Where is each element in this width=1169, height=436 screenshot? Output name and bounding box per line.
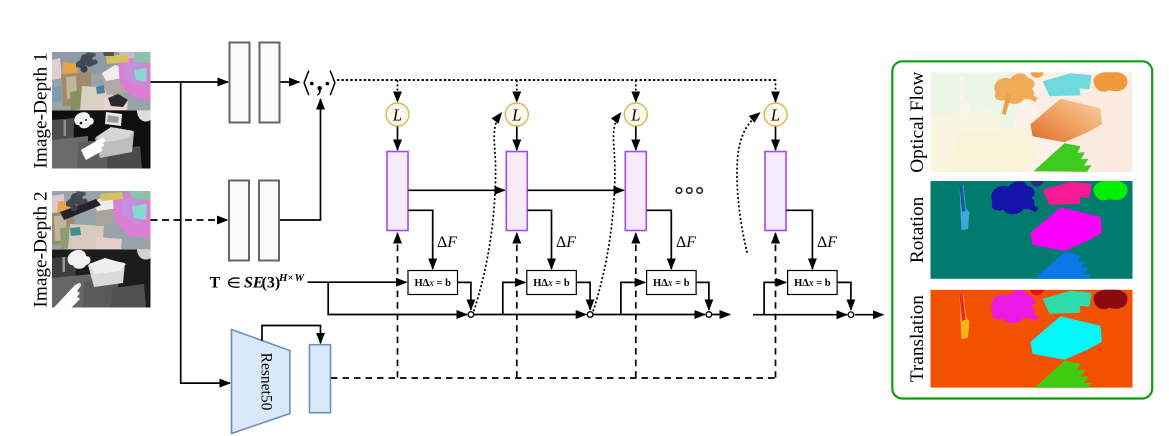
dotted stub into L3 [635,81,637,102]
wire encoder2 up to inner product [280,99,321,220]
wire image1 to encoder1 [151,81,229,83]
dark bat [108,94,128,107]
svg-text:L: L [511,106,521,125]
svg-text:(3): (3) [262,275,281,292]
GRU block 3 [625,152,646,231]
dashed hidden riser 1 [397,233,399,378]
svg-text:Image-Depth 2: Image-Depth 2 [31,191,52,307]
svg-text:L: L [630,106,640,125]
wire Hbox2 output to node 2 [576,282,590,309]
svg-text:Optical Flow: Optical Flow [907,72,928,173]
svg-text:ΔF: ΔF [676,234,696,251]
wire Hbox1 output to node 1 [458,282,471,309]
GRU block 1 [387,152,408,231]
svg-text:ΔF: ΔF [556,234,576,251]
light box [95,128,134,158]
H box 4 [788,271,838,295]
dotted pose feedback curve 2 [593,113,621,311]
wire Delta-F 2 [528,210,552,269]
H box 1 [408,271,458,295]
dotted stub into L2 [516,81,518,102]
H box 3 [647,271,697,295]
svg-text:Resnet50: Resnet50 [258,353,275,411]
wire Delta-F 4 [787,210,813,269]
dotted stub into L4 (rail end) [775,80,777,102]
image-depth 2 RGB frame [52,191,151,249]
rotation output image [931,180,1133,280]
white box center [92,196,124,226]
dotted pose feedback curve 1 [474,113,502,311]
right blob [137,249,151,259]
svg-text:L: L [770,106,780,125]
image-depth 1 RGB frame [52,52,151,111]
encoder E1 layer b [260,43,280,123]
wire T to Hbox1 [308,281,407,283]
lookup L3 circle [624,103,647,126]
wire L4 to GRU4 [775,127,777,151]
node circle 3 [706,312,712,318]
white box outline top [105,112,122,126]
lookup L4 circle [764,103,787,126]
tan box top right [106,54,129,64]
svg-text:Rotation: Rotation [907,196,928,263]
node circle 2 [587,312,593,318]
svg-text:H: H [278,272,288,284]
svg-text:L: L [392,106,402,125]
dotted pose feedback curve 3 (truncated) [737,113,760,252]
motorcycle [76,53,96,68]
node line segment 1-2 [474,314,586,316]
recurrent wire GRU1 to GRU2 [409,189,505,191]
wire L3 to GRU3 [635,127,637,151]
white box center [88,259,125,287]
wire L2 to GRU2 [516,127,518,151]
wire T branch to node line [328,282,467,314]
white brush diagonal [54,284,80,315]
feed wire node2 to Hbox3 [621,282,645,314]
pink blob right [113,191,151,238]
optical flow output image [931,71,1133,172]
translation output image [931,289,1133,389]
node line segment 4 to output panel [855,314,883,316]
pink iridescent blob [118,55,151,100]
svg-text:W: W [295,272,306,284]
svg-text:HΔx = b: HΔx = b [794,278,831,289]
wire Delta-F 1 [409,210,433,269]
feed wire node1 to Hbox2 [503,282,526,314]
right blob [137,110,151,121]
dotted stub into L1 [397,81,399,102]
feed wire to Hbox4 [764,282,786,314]
wire encoder1 to inner product [281,81,300,83]
white blobs [74,112,93,128]
GRU block 2 [506,152,527,231]
inner product symbol [304,71,335,94]
resnet50 trapezoid [232,330,290,434]
label T in SE(3)^HxW [210,272,306,292]
node circle 1 [468,312,474,318]
wire Hbox3 output to node 3 [696,282,709,309]
svg-text:ΔF: ΔF [437,234,457,251]
wire junction image1 down to resnet [181,82,230,383]
dashed hidden-state rail [331,377,776,379]
H box 2 [527,271,577,295]
tan box [100,192,123,201]
lookup L2 circle [505,103,528,126]
svg-text:Translation: Translation [907,295,928,382]
encoder E2 layer b [259,181,279,261]
white brush [81,137,106,160]
svg-text:HΔx = b: HΔx = b [653,278,690,289]
wire Delta-F 3 [647,210,672,269]
element-of symbol [229,278,240,287]
svg-text:HΔx = b: HΔx = b [533,278,570,289]
lookup L1 circle [386,103,409,126]
dashed hidden riser 3 [635,233,637,378]
ellipsis dots between unit3 and unit4 [676,188,702,194]
svg-text:Image-Depth 1: Image-Depth 1 [31,52,52,168]
encoder E2 layer a [229,181,249,261]
node line segment 2-3 [593,314,705,316]
node line segment into 4 [753,314,847,316]
context feature block (blue) [310,345,331,413]
wire image2 to encoder2 (dashed) [151,219,228,221]
recurrent wire GRU2 to GRU3 [528,189,624,191]
motorcycle [66,192,86,207]
node line segment 3 out [712,314,730,316]
dashed hidden riser 4 [775,233,777,378]
wire L1 to GRU1 [397,127,399,151]
svg-text:HΔx = b: HΔx = b [414,278,451,289]
dashed hidden riser 2 [516,233,518,378]
dark beam [60,199,101,220]
image-depth 2 depth map [52,249,151,315]
encoder E1 layer a [230,43,250,123]
svg-text:×: × [288,272,294,284]
dotted correlation rail [338,79,776,81]
GRU block 4 [765,152,786,231]
svg-text:T: T [210,275,221,292]
white blobs [68,250,91,269]
white box [101,66,133,95]
node circle 4 [848,312,854,318]
image-depth 1 depth map [52,110,151,168]
output panel green box [892,61,1152,398]
wire resnet to context block [262,326,321,344]
wire Hbox4 output to node 4 [837,282,851,309]
svg-text:ΔF: ΔF [817,234,837,251]
